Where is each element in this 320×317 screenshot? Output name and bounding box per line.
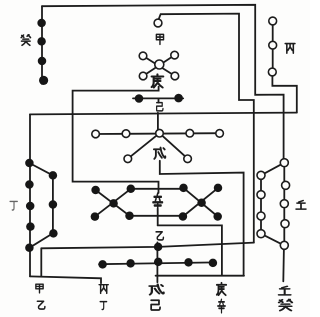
label bing right top <box>285 44 295 54</box>
wire ren out to renkui label <box>282 249 285 282</box>
wire gui column vertical <box>41 6 43 84</box>
wire bottom dots line <box>99 262 216 264</box>
node yi black dot <box>154 243 163 252</box>
label gui left <box>21 35 30 46</box>
wire yi long horizontal <box>41 243 254 249</box>
wire bing down and corner <box>272 76 296 113</box>
wire xin connectors <box>130 189 184 216</box>
label ding left faded <box>10 201 17 210</box>
node xin black dots <box>91 184 223 221</box>
wire wu row line <box>96 132 220 135</box>
label yi mid <box>156 232 163 240</box>
node ren open circles <box>257 159 290 250</box>
label jia top <box>156 34 163 44</box>
wire bottom segment2 <box>156 275 244 277</box>
label xin mid <box>153 193 162 211</box>
label wu mid <box>154 147 165 158</box>
node bing open circles <box>268 17 276 76</box>
wire yi-line left drop to jiayi label <box>40 248 42 276</box>
wire gengxin branch <box>158 225 222 275</box>
wire geng tick left loop to xin <box>73 87 159 193</box>
wire jia top run to right side down to yi line <box>159 14 254 243</box>
label geng mid <box>152 74 164 87</box>
wire ren left chain <box>260 175 262 233</box>
wire geng X diagonals <box>143 55 175 76</box>
label gengxin bottom <box>217 283 226 313</box>
wire ren right chain <box>283 163 285 246</box>
wire yi chain vertical <box>156 242 158 282</box>
node gui black dots <box>37 19 48 85</box>
wire bing column verticals <box>272 21 274 72</box>
label wuji bottom <box>149 284 163 310</box>
wire ji dots line <box>133 97 183 99</box>
label bingding bottom <box>99 285 108 310</box>
wire long middle horizontal <box>30 113 297 115</box>
wire xin right X diagonals <box>183 188 218 217</box>
node ding black dots <box>25 159 58 252</box>
wire ji to wu vertical <box>157 98 160 129</box>
node bottom row black dots <box>98 258 217 269</box>
wire xin left X diagonals <box>95 189 131 217</box>
node wu open circles <box>92 129 224 162</box>
node geng open circles <box>139 51 179 79</box>
node ji black dots <box>135 94 183 103</box>
wire ren diagonals <box>261 163 284 246</box>
label renkui bottom <box>279 286 292 310</box>
wire wu diagonals <box>128 133 188 158</box>
wire xin to yi vertical <box>157 209 159 226</box>
label ren right <box>296 201 306 210</box>
wire top border from gui column to ren chain <box>42 5 284 161</box>
wire ding cluster chain <box>29 163 53 248</box>
label jiayi bottom <box>36 284 45 309</box>
label ji mid <box>157 103 163 111</box>
wire bottom segment1 to bingding label <box>30 276 101 283</box>
wire left spine vertical <box>29 114 31 276</box>
wire wu branch right down <box>160 161 244 276</box>
node jia open circle <box>154 19 162 27</box>
